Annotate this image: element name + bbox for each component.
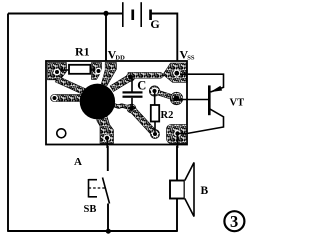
svg-text:R2: R2 bbox=[161, 110, 174, 121]
pad: R2 bottom bbox=[152, 131, 158, 137]
capacitor C top lead bbox=[131, 78, 133, 92]
speaker B cone bbox=[185, 163, 194, 217]
copper trace: VT base big pad bbox=[170, 92, 183, 105]
transistor VT emitter (top lead with arrow) bbox=[180, 74, 224, 92]
svg-text:VT: VT bbox=[230, 97, 245, 108]
copper trace: R2 bottom pad circle bbox=[150, 129, 159, 138]
pad: VSS corner patch bbox=[173, 70, 180, 77]
resistor R2 leads bbox=[154, 92, 156, 133]
pad dot: VT base pad bbox=[174, 96, 180, 102]
capacitor C plates bbox=[123, 91, 143, 93]
copper trace: VDD funnel into blob top bbox=[101, 63, 116, 86]
pad: left stub bbox=[51, 95, 57, 101]
copper trace: bottom-right patch bbox=[167, 125, 187, 144]
svg-text:C: C bbox=[137, 78, 146, 92]
copper trace: top-left patch bbox=[48, 63, 67, 80]
wire: VDD pad through board edge to switch bbox=[106, 138, 109, 171]
svg-text:SS: SS bbox=[187, 55, 195, 62]
copper pad at capacitor bottom bbox=[127, 104, 136, 113]
battery G cell long plate 2 bbox=[140, 2, 142, 27]
copper trace: VDD band from blob bottom bbox=[96, 111, 114, 144]
wire: bottom horizontal of loop bbox=[7, 230, 178, 232]
battery G cell short plate 2 bbox=[149, 10, 152, 21]
copper trace: R2 top pad circle bbox=[149, 86, 159, 96]
figure number 3 circled bbox=[224, 211, 244, 231]
switch SB button actuator bbox=[89, 179, 98, 198]
capacitor C bottom lead bbox=[131, 98, 133, 107]
switch SB lower terminal bbox=[107, 204, 109, 232]
resistor R2 body bbox=[151, 105, 159, 122]
transistor VT collector (bottom lead) bbox=[178, 108, 224, 133]
copper trace: diagonal band top-left patch to blob bbox=[55, 76, 85, 94]
svg-text:R1: R1 bbox=[75, 45, 90, 59]
PCB board A outline bbox=[46, 61, 187, 145]
pad: R2 top bbox=[151, 87, 158, 94]
IC blob (chip on board) bbox=[80, 84, 115, 120]
svg-text:A: A bbox=[74, 156, 82, 168]
battery G cell long plate 1 bbox=[122, 2, 124, 27]
wire: battery right to VSS corner and drop to board bbox=[151, 14, 178, 73]
svg-text:G: G bbox=[150, 17, 159, 31]
wire: VDD drop from top wire to board bbox=[105, 14, 107, 62]
pad: bottom-right patch bbox=[174, 130, 181, 137]
copper trace: dumbbell bar R2-top pad to VT base pad bbox=[152, 89, 177, 101]
wire: board bottom-right pad through edge to speaker bbox=[176, 134, 178, 181]
wire: top horizontal from left corner to battery bbox=[8, 13, 123, 15]
copper trace: diagonal cap-bottom pad to R2 bottom pad bbox=[129, 106, 157, 136]
pad dot: cap top bbox=[128, 75, 133, 80]
speaker B body bbox=[170, 181, 185, 199]
copper pad bulge at cap top bbox=[126, 73, 134, 81]
node: junction dot top wire / VDD bbox=[103, 11, 108, 16]
copper trace: R1 right patch bbox=[92, 63, 102, 80]
copper trace: left stub band into blob (9 o'clock) bbox=[51, 95, 85, 102]
switch SB dashed link bbox=[89, 187, 106, 189]
svg-text:3: 3 bbox=[230, 212, 238, 231]
svg-text:B: B bbox=[201, 185, 209, 197]
pad: VDD bottom patch bbox=[104, 135, 111, 142]
copper trace: squiggle blob to cap bottom pad bbox=[112, 103, 130, 109]
pad: R1 right bbox=[95, 68, 102, 75]
wire: left vertical side of loop bbox=[7, 14, 9, 232]
svg-text:DD: DD bbox=[115, 55, 125, 62]
mounting hole bottom-left of board bbox=[57, 129, 66, 138]
pad: R1 left (white ring + dot) bbox=[54, 69, 61, 76]
node: junction dot bottom wire / SB bbox=[106, 229, 111, 234]
copper trace: VSS banner patch bbox=[163, 63, 186, 82]
transistor VT emitter arrowhead bbox=[210, 86, 222, 92]
copper trace: diagonal blob to VSS trace pad bbox=[110, 75, 132, 92]
transistor VT base wire bbox=[177, 99, 209, 101]
wire: speaker bottom to bottom rail bbox=[176, 199, 178, 232]
resistor R1 leads bbox=[57, 69, 99, 71]
resistor R1 body bbox=[69, 65, 90, 74]
copper trace: VSS horizontal trace and top-right corner patch bbox=[128, 73, 165, 79]
battery G cell short plate 1 bbox=[131, 10, 134, 21]
transistor VT base bar bbox=[208, 85, 211, 115]
pad dot: cap bottom bbox=[129, 106, 134, 111]
switch SB blade bbox=[103, 178, 110, 204]
svg-text:SB: SB bbox=[84, 204, 97, 215]
